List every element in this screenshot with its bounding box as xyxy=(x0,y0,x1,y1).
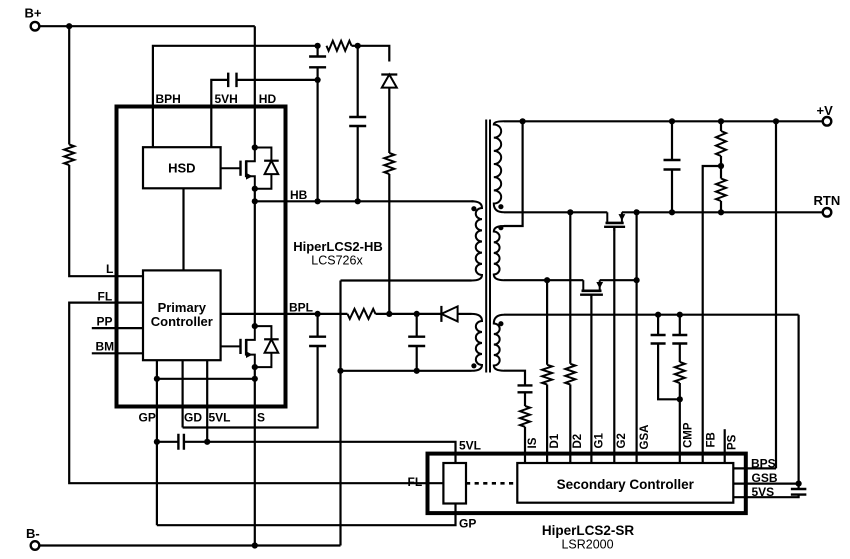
wire D1 sense xyxy=(546,280,548,365)
svg-text:B+: B+ xyxy=(25,6,42,21)
resistor line sense xyxy=(64,145,74,166)
wire PS stub xyxy=(724,429,726,463)
wire comp cap to CMP xyxy=(658,344,680,400)
junction GP / cap xyxy=(154,439,160,445)
wire GP pin xyxy=(156,360,158,525)
IC block HiperLCS2-HB outline xyxy=(117,107,286,407)
wire top rail to bootstrap diode xyxy=(358,46,390,62)
junction GSB / comp RC xyxy=(677,312,683,318)
capacitor BPH bypass xyxy=(309,57,326,68)
svg-text:FB: FB xyxy=(706,432,718,447)
capacitor compensation C2 xyxy=(672,335,687,344)
svg-text:IS: IS xyxy=(527,437,539,448)
wire comp RC mid xyxy=(679,344,681,363)
wire output cap bottom lead xyxy=(671,170,673,213)
svg-text:GSA: GSA xyxy=(639,425,651,450)
svg-text:GD: GD xyxy=(184,411,202,425)
svg-text:G1: G1 xyxy=(594,433,606,449)
capacitor BPL bypass xyxy=(309,337,326,346)
wire HD drop from B+ xyxy=(254,26,256,147)
wire primary bottom lead xyxy=(341,279,472,281)
svg-text:Primary: Primary xyxy=(158,300,207,315)
svg-text:5VL: 5VL xyxy=(209,411,231,425)
wire GSB pin xyxy=(733,483,798,485)
FluxLink interface box xyxy=(443,463,466,504)
wire +V rail xyxy=(504,120,823,122)
junction BPH rail / cap xyxy=(315,43,321,49)
wire BPL to bias diode xyxy=(417,313,442,315)
wire D1 to controller xyxy=(546,385,548,464)
wire output cap top lead xyxy=(671,121,673,160)
wire GP cap left lead xyxy=(157,441,179,443)
capacitor GP-5VL xyxy=(178,434,184,450)
wire GSA riser upper xyxy=(635,212,637,280)
svg-text:5VL: 5VL xyxy=(459,439,481,453)
junction high-side drain xyxy=(252,144,258,150)
junction RTN / divider xyxy=(718,209,724,215)
resistor divider upper xyxy=(716,131,726,156)
HSD box xyxy=(143,147,221,188)
polarity dot aux winding xyxy=(498,321,503,326)
wire FB tap xyxy=(703,166,721,463)
svg-text:5VH: 5VH xyxy=(215,92,238,106)
dashed FluxLink coupling xyxy=(466,482,517,485)
wire bias cap bottom lead xyxy=(416,346,418,371)
wire IS mid xyxy=(524,392,526,406)
wire GP cap right lead xyxy=(184,441,207,443)
wire bias cap top lead xyxy=(416,314,418,337)
wire BPL cap to GD line xyxy=(183,346,318,428)
terminal RTN xyxy=(823,208,832,217)
wire BPS pin xyxy=(733,467,776,469)
wire sense resistor to L pin xyxy=(69,165,143,276)
capacitor half-bridge snubber xyxy=(349,117,366,126)
svg-text:HiperLCS2-HB: HiperLCS2-HB xyxy=(293,239,383,254)
junction top rail / HB cap xyxy=(355,43,361,49)
wire PP stub xyxy=(92,327,143,329)
wire source to GP tie xyxy=(157,378,255,380)
terminal B+ xyxy=(31,22,40,31)
resistor IS xyxy=(520,406,530,427)
wire 5VL pin xyxy=(206,360,208,442)
wire bias diode to winding xyxy=(458,313,472,315)
wire B- riser to primary return xyxy=(339,281,341,546)
junction +V / winding2 riser xyxy=(520,118,526,124)
wire low-side source down xyxy=(254,367,256,379)
capacitor 5VH xyxy=(228,73,236,88)
junction 5VL / cap xyxy=(204,439,210,445)
wire S pin down xyxy=(254,379,256,546)
svg-text:GP: GP xyxy=(459,517,476,531)
wire 5VL to secondary xyxy=(207,442,455,463)
wire D2 to controller xyxy=(569,385,571,464)
IC block HiperLCS2-SR outline xyxy=(428,454,746,513)
wire BPH riser xyxy=(153,46,318,147)
polarity dot bias winding xyxy=(471,363,476,368)
junction CMP node xyxy=(677,396,683,402)
wire diode to resistor xyxy=(388,88,390,153)
terminal B- xyxy=(31,541,40,550)
wire D2 sense xyxy=(569,212,571,363)
svg-text:D1: D1 xyxy=(549,433,561,448)
diode bias rectifier xyxy=(440,306,442,322)
wire HSD to controller xyxy=(182,188,184,270)
junction low-side drain xyxy=(252,323,258,329)
transistor high-side MOSFET xyxy=(221,167,241,169)
inductor secondary winding 1 xyxy=(494,121,504,212)
wire RTN rail left xyxy=(504,211,607,213)
wire B- rail xyxy=(39,544,340,546)
junction FET2 / GSA riser xyxy=(634,277,640,283)
junction RTN / output cap xyxy=(669,209,675,215)
svg-text:GSB: GSB xyxy=(752,471,778,485)
inductor aux winding xyxy=(494,315,504,371)
junction HB node xyxy=(252,198,258,204)
wire BPS riser xyxy=(775,121,777,468)
wire GSA to controller xyxy=(635,280,637,463)
junction primary return / bias return xyxy=(337,368,343,374)
resistor D1 sense xyxy=(542,365,552,385)
wire GSB cap lead xyxy=(797,484,799,489)
wire 5VS pin xyxy=(733,495,798,498)
svg-text:L: L xyxy=(106,262,113,276)
wire FL primary to secondary FL xyxy=(69,303,443,484)
wire bootstrap resistor to BPL node xyxy=(388,174,390,314)
wire high-side source to HB xyxy=(254,189,256,326)
Secondary Controller box xyxy=(517,463,733,503)
svg-text:GP: GP xyxy=(139,411,156,425)
junction +V / BPS xyxy=(773,118,779,124)
wire divider bottom lead xyxy=(720,201,722,212)
svg-text:Controller: Controller xyxy=(151,314,213,329)
wire B+ rail xyxy=(39,25,254,27)
svg-text:BPS: BPS xyxy=(751,456,776,470)
junction high-side source xyxy=(252,186,258,192)
wire comp RC top lead xyxy=(679,315,681,335)
wire CMP to controller xyxy=(679,399,681,463)
inductor bias winding xyxy=(472,314,483,371)
resistor compensation xyxy=(675,362,685,383)
svg-text:+V: +V xyxy=(817,103,834,118)
junction +V / output cap xyxy=(669,118,675,124)
svg-text:5VS: 5VS xyxy=(752,485,775,499)
polarity dot secondary 2 xyxy=(498,225,503,230)
junction source / GP tie xyxy=(252,376,258,382)
wire BPL from controller xyxy=(221,313,348,315)
capacitor output xyxy=(664,160,681,170)
wire GP to secondary xyxy=(157,504,456,526)
polarity dot secondary 1 xyxy=(498,204,503,209)
wire divider top lead xyxy=(720,121,722,131)
capacitor compensation C1 xyxy=(651,335,666,344)
wire BM stub xyxy=(92,352,143,354)
resistor divider lower xyxy=(716,179,726,202)
junction W2 rail / D1 xyxy=(544,277,550,283)
svg-text:FL: FL xyxy=(408,475,423,489)
wire HB cap bottom lead xyxy=(357,126,359,201)
svg-text:S: S xyxy=(257,411,265,425)
wire HB cap top lead xyxy=(357,46,359,117)
svg-text:LSR2000: LSR2000 xyxy=(561,538,613,552)
wire BPL cap top lead xyxy=(317,314,319,337)
wire HB rail xyxy=(255,200,474,202)
svg-text:B-: B- xyxy=(26,526,40,541)
junction GSB / bypass cap xyxy=(796,481,802,487)
junction S at B- xyxy=(252,542,258,548)
diode bootstrap xyxy=(381,73,397,75)
junction BPL / bias cap xyxy=(414,311,420,317)
wire IS to controller xyxy=(524,427,526,463)
wire GSB drop xyxy=(797,315,799,484)
transistor SR MOSFET 1 xyxy=(606,212,608,222)
wire 5VH cap to node xyxy=(237,79,318,81)
transformer core xyxy=(486,120,490,373)
capacitor bias filter xyxy=(408,337,425,346)
wire B+ to sense resistor xyxy=(68,26,70,144)
wire cap to HB xyxy=(317,67,319,201)
svg-text:BM: BM xyxy=(96,340,115,354)
wire comp cap top lead xyxy=(657,315,659,335)
svg-text:FL: FL xyxy=(98,290,113,304)
transistor SR MOSFET 2 xyxy=(582,280,584,290)
wire RTN rail right xyxy=(622,211,823,213)
junction HB cap at HB rail xyxy=(355,198,361,204)
junction BPL / cap xyxy=(315,311,321,317)
junction 5VH cap node xyxy=(315,77,321,83)
junction GP tie xyxy=(154,376,160,382)
wire G2 gate lead xyxy=(613,226,615,463)
svg-text:HD: HD xyxy=(259,92,277,106)
junction low-side source xyxy=(252,364,258,370)
junction B+ / sense resistor xyxy=(66,23,72,29)
wire GSB line xyxy=(504,314,799,316)
resistor D2 sense xyxy=(565,364,575,385)
resistor BPL series xyxy=(348,309,376,319)
svg-text:RTN: RTN xyxy=(814,193,841,208)
junction BPL / bootstrap chain xyxy=(386,311,392,317)
transistor low-side MOSFET xyxy=(221,345,241,347)
wire W2 rail left xyxy=(504,279,583,281)
wire G1 gate lead xyxy=(590,294,592,463)
wire top rail segment xyxy=(352,45,358,47)
junction cap at HB rail xyxy=(315,198,321,204)
resistor bootstrap xyxy=(384,153,394,174)
terminal +V xyxy=(823,117,832,126)
svg-text:HSD: HSD xyxy=(168,160,195,175)
junction divider tap xyxy=(718,163,724,169)
svg-text:HB: HB xyxy=(290,188,308,202)
wire comp RC bottom xyxy=(679,383,681,399)
inductor primary winding xyxy=(472,201,483,280)
svg-text:CMP: CMP xyxy=(683,422,695,448)
svg-text:D2: D2 xyxy=(572,434,584,449)
svg-text:PS: PS xyxy=(727,434,739,450)
capacitor IS filter xyxy=(518,385,533,392)
wire divider mid xyxy=(720,156,722,179)
svg-text:BPL: BPL xyxy=(289,300,313,314)
Primary Controller box xyxy=(143,270,221,360)
svg-text:BPH: BPH xyxy=(156,92,181,106)
wire W2 rail right xyxy=(600,279,637,281)
wire aux bottom to IS xyxy=(504,371,525,386)
junction RTN / D2 xyxy=(567,209,573,215)
svg-text:G2: G2 xyxy=(616,433,628,448)
resistor BPH-5VH top xyxy=(327,41,352,51)
svg-text:LCS726x: LCS726x xyxy=(311,254,363,268)
svg-text:HiperLCS2-SR: HiperLCS2-SR xyxy=(542,523,635,538)
wire BPL mid xyxy=(376,313,417,315)
wire GD pin drop xyxy=(182,360,184,427)
junction bias cap / return xyxy=(414,368,420,374)
wire cap lead xyxy=(317,46,319,57)
polarity dot primary xyxy=(471,206,476,211)
svg-text:PP: PP xyxy=(97,315,113,329)
junction GSB / comp cap xyxy=(655,312,661,318)
inductor secondary winding 2 xyxy=(494,226,504,280)
capacitor 5VS bypass xyxy=(791,489,807,495)
wire winding2 to +V xyxy=(504,121,523,226)
wire bias return xyxy=(341,370,417,372)
wire bias winding return xyxy=(417,370,472,372)
svg-text:Secondary Controller: Secondary Controller xyxy=(557,477,695,492)
junction RTN / GSA riser xyxy=(634,209,640,215)
wire 5VH riser xyxy=(211,80,227,147)
junction +V / divider xyxy=(718,118,724,124)
